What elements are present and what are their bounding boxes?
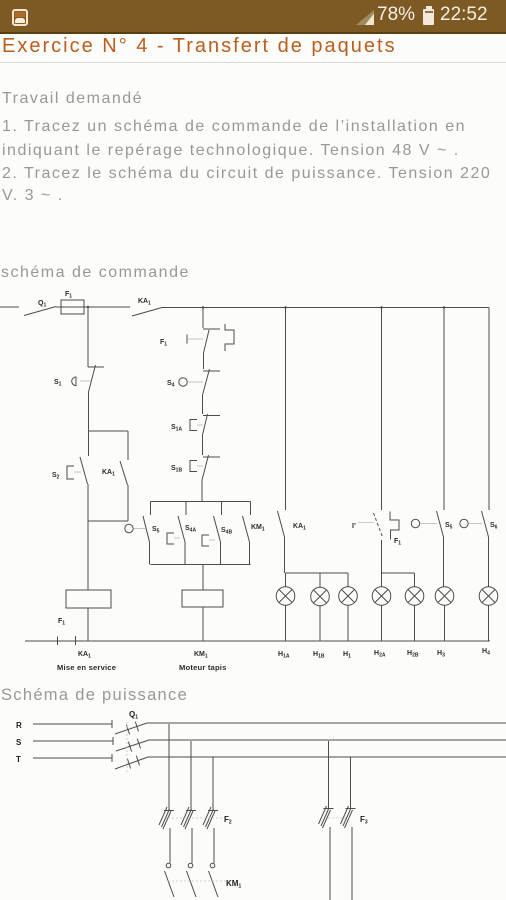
wire phase R in [33,720,112,728]
svg-text:KA1: KA1 [138,298,151,307]
wire to coil [87,521,89,590]
wire drop T [212,757,214,810]
wire [443,537,445,587]
wire [381,540,383,573]
wire [220,542,222,565]
lamp H2A [372,587,391,606]
svg-text:S4A: S4A [185,525,196,534]
switch Q1 pole R [115,723,147,734]
switch Q1 pole T [115,757,148,769]
wire [319,606,321,641]
contact S4B (NO) [214,516,221,542]
signal icon [356,10,374,25]
svg-text:F1: F1 [58,618,65,627]
wire lamp H1 stub [347,573,349,587]
wire [329,827,331,900]
lamp H1 [339,587,358,606]
terminal tick [75,636,77,645]
wire top rail right segment [162,307,489,309]
fuse F3 pole 2 [341,806,356,828]
wire drop S [190,741,192,810]
thermal hook F1 [225,324,234,351]
wire [149,542,151,565]
svg-text:H1: H1 [343,651,351,660]
mechanical link F2 [168,817,225,819]
contact S1B (NC) [202,455,220,480]
svg-text:Moteur tapis: Moteur tapis [179,663,227,672]
svg-text:KA1: KA1 [293,523,306,532]
svg-text:S4B: S4B [221,527,232,536]
wire [184,542,186,565]
wire lamp H2B stub [414,573,416,587]
wire [169,828,171,863]
wire [414,605,416,641]
svg-text:I’: I’ [352,523,356,530]
svg-text:S1: S1 [54,379,62,388]
svg-text:H2B: H2B [407,650,419,659]
node parallel bottom bus [151,564,251,566]
svg-text:F1: F1 [160,339,167,348]
svg-text:Q1: Q1 [38,300,46,309]
svg-text:S4: S4 [167,380,175,389]
wire branch2 stub [185,502,187,516]
lamp H2B [405,587,424,606]
contact S5 push (NO) [437,511,444,537]
wire middle branch vertical [202,308,204,329]
svg-text:H2A: H2A [374,650,386,659]
actuator bracket S1B [190,461,197,472]
contact KA1 top [132,308,162,317]
wire phase R out [147,722,506,724]
wire S2 top stub [88,431,90,456]
wire phase T out [148,756,506,758]
svg-text:S5: S5 [445,522,453,531]
actuator bracket S4B [202,535,209,546]
node lamp bus 2 [382,572,415,574]
svg-text:S6: S6 [490,522,498,531]
lamp H3 [435,587,454,606]
wire lamp H2A stub [381,573,383,587]
contact S1 (NC) [88,365,104,392]
svg-text:H4: H4 [482,648,490,657]
svg-text:F3: F3 [360,815,368,826]
wire [88,392,90,431]
node parallel top bus [151,501,251,503]
wire [488,537,490,587]
wire branch1 stub [150,502,152,516]
svg-text:S1B: S1B [171,465,182,474]
fuse F2 pole 1 [159,807,174,829]
actuator bracket S4A [167,533,174,544]
pushbutton head S5 right [411,519,419,527]
contact S6 push (NO) [482,511,489,537]
contact F1 thermal (NC) [374,513,383,537]
svg-text:T: T [16,755,21,764]
switch Q1 pole S [116,740,149,751]
lamp H1B [311,587,330,606]
wire bottom rail [25,640,490,642]
fuse box F1 [61,300,84,314]
wire top rail through fuse to KA1 gap [56,306,130,308]
svg-text:F1: F1 [65,291,72,300]
wire [202,395,204,414]
wire phase S out [149,739,506,741]
svg-text:H3: H3 [437,650,445,659]
pushbutton head S6 [460,519,468,527]
screenshot notification icon [12,9,28,26]
wire branch S5 lamp vertical [443,308,445,511]
node split horizontal [89,430,129,432]
svg-text:H1B: H1B [313,651,325,660]
pushbutton head S4 [179,378,187,386]
wire [284,537,286,573]
wire KA1 stub [127,431,129,460]
svg-text:KA1: KA1 [78,651,91,660]
actuator flag F1 [186,335,188,344]
svg-text:Q1: Q1 [129,710,138,721]
lamp H1A [276,587,295,606]
wire drop T right [350,757,352,808]
pushbutton head S5 [125,524,133,532]
svg-text:R: R [16,721,22,730]
wire branch KA1 lamps vertical [285,308,287,511]
actuator bracket S2 [67,466,74,479]
wire branch S6 lamp vertical [488,308,490,511]
lamp H4 [479,587,498,606]
wire coil to rail [87,608,89,641]
svg-text:Mise en service: Mise en service [57,663,116,672]
node lamp bus 1 [286,572,349,574]
wire drop S right [328,741,330,808]
node junction dots on top rail [87,306,445,309]
contact S4 (NC) [203,369,221,395]
fuse F3 pole 1 [319,806,334,828]
actuator bracket S1A [190,420,197,431]
wire [191,828,193,863]
wire [202,435,204,455]
contact KA1 (NO) [278,511,285,537]
title [2,35,397,58]
wire [351,827,353,900]
contact KM1 pole 2 [188,863,193,868]
wire branch F1 lamps vertical [381,308,383,511]
svg-text:S2: S2 [52,472,60,481]
svg-text:KM1: KM1 [194,651,208,660]
fuse F2 pole 2 [181,807,196,829]
contact KM1 pole 1 [166,863,171,868]
wire [201,480,203,502]
svg-text:KM1: KM1 [251,524,265,533]
wire branch3 stub [221,502,223,516]
svg-text:KA1: KA1 [102,469,115,478]
svg-text:F1: F1 [394,538,401,547]
battery icon [423,9,434,25]
switch Q1 [24,307,56,316]
contact S2 (NO) [80,457,88,484]
wire branch4 stub [250,502,252,516]
pushbutton head S1 [72,377,76,386]
wire [203,353,205,369]
wire lamp H1B stub [319,573,321,587]
node bottom join [88,520,128,522]
contact KM1 pole 3 [210,863,215,868]
wire [213,828,215,863]
svg-text:KM1: KM1 [226,879,241,890]
wire [347,605,349,641]
contact F1 thermal (NC) [203,329,220,353]
contact S1A (NC) [203,414,221,435]
contact S4A (NO) [178,516,185,542]
wire to coil [202,565,204,591]
wire phase T in [33,754,112,762]
wire lamp H1A stub [285,573,287,587]
svg-text:S: S [16,738,22,747]
contact S5 (NO) [143,516,150,542]
wire [87,484,89,521]
wire phase S in [33,737,113,745]
coil KM1 [182,590,223,607]
mechanical link Q1 [126,722,128,772]
wire drop R [168,724,170,810]
coil KA1 [66,590,111,608]
svg-text:H1A: H1A [278,651,290,660]
wire left branch vertical [87,307,89,367]
wire [488,605,490,641]
thermal hook F1 right [390,512,399,540]
wire [444,605,446,641]
wire top rail left segment [0,306,19,308]
wire coil to rail [202,607,204,641]
svg-text:S1A: S1A [171,424,182,433]
mechanical link F3 [328,817,352,819]
status bar [0,0,506,34]
svg-text:S5: S5 [152,526,160,535]
wire [381,605,383,641]
wire [285,605,287,641]
body text [2,90,143,108]
actuator link I' to F1 [358,522,374,524]
fuse F2 pole 3 [203,807,218,829]
contact KM1 (NO) [243,516,250,542]
svg-text:F2: F2 [224,815,232,826]
wire [127,485,129,521]
wire [249,542,251,565]
mechanical link KM1 [168,880,230,882]
terminal tick [57,637,59,646]
contact KA1 (NO, hold) [120,461,128,485]
